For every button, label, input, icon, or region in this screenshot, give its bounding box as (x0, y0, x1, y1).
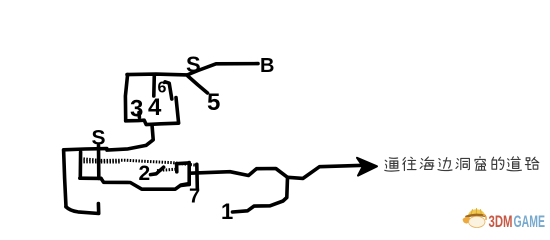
wire upper box top edge (127, 72, 187, 76)
char 的 (492, 157, 504, 169)
char 通 (385, 158, 399, 171)
svg-text:4: 4 (148, 94, 162, 121)
wire bracket bottom foot (181, 185, 189, 186)
wire upper box bottom edge (126, 120, 179, 124)
wire long horizontal path to junction (190, 169, 288, 178)
char 路 (525, 157, 538, 169)
svg-text:B: B (260, 55, 274, 77)
svg-text:S: S (92, 127, 106, 150)
dotted line upper row (81, 159, 197, 166)
svg-text:GAME: GAME (514, 212, 546, 231)
wire lower box inner left vertical (79, 152, 83, 178)
wire bracket left vertical (175, 164, 179, 172)
wire tick mark 7 (195, 164, 199, 188)
wire lower box inner right vertical under S (97, 146, 101, 179)
svg-text:3: 3 (130, 96, 143, 123)
wire junction down to 1 (233, 178, 288, 213)
svg-text:1: 1 (221, 199, 233, 224)
char 道 (507, 157, 521, 171)
char 窟 (475, 157, 486, 171)
wire lower box top edge (64, 149, 107, 150)
wire inner divider above 4 (152, 75, 156, 96)
char 海 (420, 157, 434, 169)
wire hook right of 6 (165, 82, 172, 99)
wire diagonal from S junction down to 5 (188, 76, 208, 93)
watermark logo chick (463, 208, 487, 227)
svg-text:S: S (186, 52, 201, 77)
arrowhead (357, 158, 377, 176)
dotted line start cluster (81, 160, 121, 163)
char 边 (438, 158, 452, 171)
char 往 (403, 157, 416, 170)
wire upper box right edge (176, 98, 179, 124)
wire bracket top edge (177, 161, 189, 165)
wire junction to arrow (288, 165, 369, 178)
dotted line lower row (157, 169, 176, 170)
svg-text:3DM: 3DM (489, 212, 513, 231)
wire stub from upper box down-left to lower S (107, 125, 153, 151)
wire lower box inner bottom (80, 176, 101, 180)
wire diagonal from S junction up to B (187, 64, 258, 75)
svg-text:7: 7 (189, 186, 200, 208)
wire upper box left edge (125, 75, 127, 121)
svg-text:5: 5 (207, 89, 220, 116)
wire tick under 3 (137, 113, 141, 118)
chinese text: 通往海边洞窟的道路 (hand drawn strokes) (385, 157, 539, 172)
wire lower box outer bottom with hook (66, 204, 99, 214)
char 洞 (456, 158, 469, 169)
wire check stroke from 2 (151, 167, 164, 174)
svg-text:2: 2 (139, 162, 151, 185)
wire bracket right vertical (187, 163, 191, 185)
wire lower box outer left edge (64, 150, 66, 207)
wire bottom path from lower box to bracket (101, 178, 187, 189)
